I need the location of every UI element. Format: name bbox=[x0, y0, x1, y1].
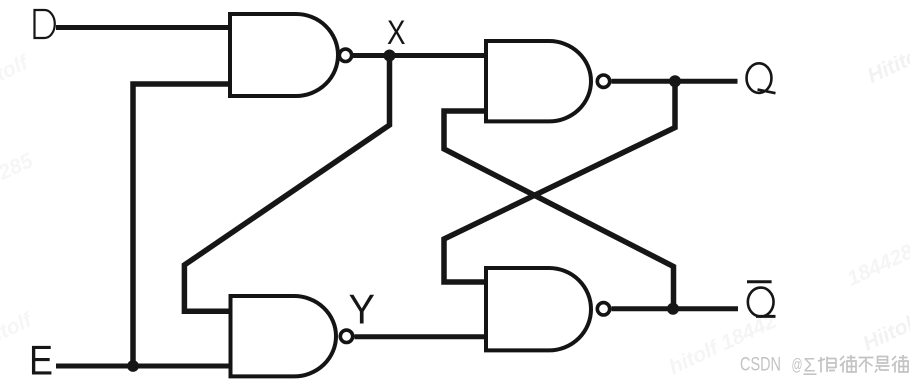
faint watermark fragment right middle bbox=[844, 235, 910, 291]
wire X to U2 upper input bbox=[184, 56, 389, 312]
svg-text:Hititolf: Hititolf bbox=[0, 50, 33, 100]
svg-text:@: @ bbox=[792, 356, 803, 374]
wire E to U1 lower input bbox=[133, 84, 232, 366]
svg-text:CSDN: CSDN bbox=[740, 355, 781, 376]
watermark CJK char 2 bbox=[840, 355, 856, 373]
node X bbox=[384, 50, 396, 62]
watermark CJK char 5 bbox=[892, 355, 908, 373]
node Q bbox=[669, 75, 681, 87]
wire Qbar to U3 lower input bbox=[444, 111, 674, 309]
nand gate U2 bbox=[231, 296, 337, 376]
bubble U3 bbox=[597, 75, 609, 87]
bubble U1 bbox=[339, 49, 351, 61]
svg-text:Hiitolf: Hiitolf bbox=[860, 309, 910, 356]
bubble U2 bbox=[340, 330, 352, 342]
svg-text:X: X bbox=[387, 14, 406, 52]
label Qbar bbox=[747, 282, 776, 317]
svg-text:Σ: Σ bbox=[804, 356, 816, 377]
wire D input bbox=[56, 25, 232, 30]
nand gate U4 bbox=[486, 268, 591, 350]
wire Qbar output bbox=[612, 306, 739, 311]
junction E node bbox=[127, 360, 139, 372]
faint watermark fragment bottom center bbox=[666, 309, 781, 379]
wire Y to U4 lower input bbox=[355, 334, 489, 339]
bubble U4 bbox=[597, 303, 609, 315]
wire Q output bbox=[612, 79, 738, 84]
nand gate U1 bbox=[230, 14, 338, 96]
wire E input bbox=[56, 364, 232, 369]
svg-text:Hititolf: Hititolf bbox=[864, 38, 910, 88]
faint watermark fragment bottom right bbox=[860, 309, 910, 356]
faint watermark fragment left top bbox=[0, 50, 33, 100]
nand gate U3 bbox=[486, 41, 591, 121]
watermark CJK char 3 bbox=[859, 358, 874, 373]
label Q bbox=[747, 63, 776, 93]
wire X to U3 upper input bbox=[353, 53, 488, 58]
label D bbox=[35, 10, 55, 38]
svg-text:1844285: 1844285 bbox=[844, 235, 910, 291]
faint watermark fragment left bottom bbox=[0, 308, 37, 358]
svg-text:E: E bbox=[29, 337, 53, 380]
watermark CJK char 4 bbox=[875, 357, 890, 373]
faint watermark fragment left middle bbox=[0, 149, 37, 205]
wire Q to U4 upper input bbox=[444, 81, 675, 282]
watermark CJK char 1 bbox=[818, 357, 836, 373]
svg-text:Y: Y bbox=[349, 286, 376, 333]
node Qbar bbox=[667, 303, 679, 315]
svg-text:1844285: 1844285 bbox=[0, 149, 37, 205]
faint watermark fragment right top bbox=[864, 38, 910, 88]
